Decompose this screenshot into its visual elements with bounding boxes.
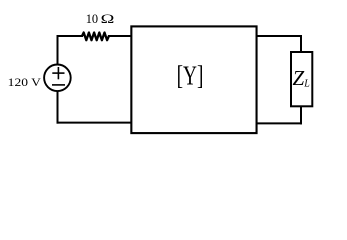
wire top-left from source to resistor (57, 35, 84, 37)
svg-text:120 V: 120 V (8, 75, 42, 89)
wire bottom-left from source to box (57, 122, 133, 124)
voltage source V1 (44, 65, 71, 92)
wire resistor to box (108, 35, 132, 37)
minus sign of source (52, 84, 65, 86)
plus sign of source (52, 67, 64, 79)
two-port network box U1 (131, 26, 256, 133)
wire top-right from box to load (257, 35, 303, 37)
svg-text:Ω: Ω (101, 13, 115, 27)
svg-text:ZL: ZL (293, 66, 311, 90)
wire left vertical lower (57, 91, 59, 123)
wire bottom-right from load to box (257, 122, 303, 124)
wire load bottom stub (300, 106, 302, 124)
wire left vertical upper (57, 35, 59, 65)
resistor R1 (82, 33, 109, 41)
svg-text:[Y]: [Y] (177, 61, 204, 91)
wire load top stub (300, 35, 302, 53)
svg-text:10: 10 (86, 12, 98, 26)
load impedance ZL (291, 52, 312, 106)
